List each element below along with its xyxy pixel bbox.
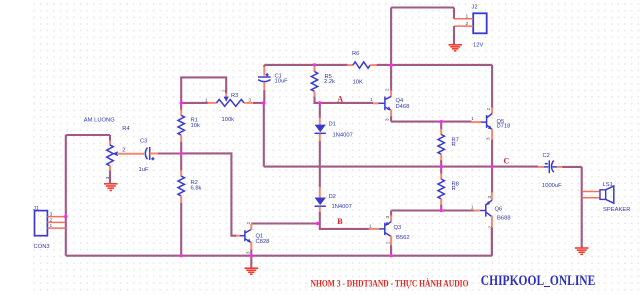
svg-text:Q4: Q4 xyxy=(396,98,405,104)
svg-text:R: R xyxy=(452,186,456,192)
svg-text:3: 3 xyxy=(385,118,390,121)
resistor R5 xyxy=(311,66,335,103)
title blue xyxy=(481,273,596,289)
wire C1 column to node C xyxy=(263,103,265,167)
node junction A / D1 xyxy=(318,101,321,104)
svg-text:1N4007: 1N4007 xyxy=(333,133,353,139)
node A label xyxy=(337,95,343,104)
svg-text:AM LUONG: AM LUONG xyxy=(84,117,115,123)
svg-text:6.8k: 6.8k xyxy=(191,186,202,192)
svg-text:1: 1 xyxy=(471,204,474,209)
wire C2 down to speaker and ground xyxy=(581,167,583,248)
title red xyxy=(311,278,469,290)
potentiometer R3 xyxy=(181,89,263,123)
svg-text:C3: C3 xyxy=(140,139,147,145)
resistor R2 xyxy=(178,153,202,255)
svg-text:3: 3 xyxy=(487,196,492,199)
wire bottom ground rail xyxy=(66,255,492,257)
node C label xyxy=(504,156,510,165)
svg-text:R6: R6 xyxy=(352,51,359,57)
connector J1 xyxy=(33,206,66,250)
wire Q3 emitter to Q6 base xyxy=(391,209,474,211)
svg-text:D2: D2 xyxy=(329,194,336,200)
resistor R6 xyxy=(347,51,377,85)
svg-text:12V: 12V xyxy=(473,43,483,49)
diode D1 xyxy=(315,103,353,141)
svg-text:2.2k: 2.2k xyxy=(324,79,335,85)
transistor Q1 xyxy=(236,222,269,256)
node junction B xyxy=(316,222,319,225)
wire J2 column to Q4 collector xyxy=(390,65,392,91)
svg-text:3: 3 xyxy=(249,97,252,102)
wire node A to Q4 base xyxy=(320,102,373,104)
svg-text:100k: 100k xyxy=(222,117,235,123)
node junction Q5 emitter / node C xyxy=(490,165,493,168)
svg-text:3: 3 xyxy=(246,251,251,254)
svg-text:Q3: Q3 xyxy=(394,225,402,231)
node B label xyxy=(337,217,343,226)
svg-text:2: 2 xyxy=(222,89,227,92)
capacitor C2 xyxy=(538,153,582,189)
transistor Q5 xyxy=(471,107,510,166)
wire top supply rail xyxy=(264,64,492,66)
svg-text:1: 1 xyxy=(50,223,53,228)
wire node B jog to Q3 base xyxy=(320,224,369,229)
resistor R8 xyxy=(438,167,459,211)
svg-text:CHIPKOOL_ONLINE: CHIPKOOL_ONLINE xyxy=(481,273,596,289)
node junction R7 bottom / node C xyxy=(440,165,443,168)
node junction R3 pin1 xyxy=(180,101,183,104)
node junction R3 pin3 / C1 xyxy=(262,101,265,104)
wire Q1 collector to node B xyxy=(251,222,319,224)
wire rail end to Q6 collector xyxy=(491,228,493,256)
svg-text:NHOM 3 - DHDT3AND - THỰC HÀNH: NHOM 3 - DHDT3AND - THỰC HÀNH AUDIO xyxy=(311,278,469,290)
svg-text:2: 2 xyxy=(466,21,469,26)
svg-text:R: R xyxy=(452,142,456,148)
capacitor C3 xyxy=(139,139,182,174)
ground under speaker xyxy=(575,248,589,254)
svg-text:D468: D468 xyxy=(396,104,410,110)
svg-text:1N4007: 1N4007 xyxy=(332,204,352,210)
node junction J1 pin3 xyxy=(64,215,67,218)
node junction R8 bottom xyxy=(440,209,443,212)
svg-text:C2: C2 xyxy=(543,153,550,159)
node junction supply rail / J2 xyxy=(389,63,392,66)
node junction R2 bottom rail xyxy=(180,254,183,257)
svg-text:J2: J2 xyxy=(472,4,478,10)
svg-text:D718: D718 xyxy=(497,123,511,129)
svg-text:D1: D1 xyxy=(329,122,336,128)
svg-text:3: 3 xyxy=(50,212,53,217)
svg-text:B688: B688 xyxy=(497,216,511,222)
wire J1 to R4 top xyxy=(66,134,110,136)
svg-text:B: B xyxy=(337,217,343,226)
speaker LS1 xyxy=(582,182,631,213)
wire C3 node to Q1 base xyxy=(181,153,236,235)
diode D2 xyxy=(315,187,352,224)
svg-text:B562: B562 xyxy=(396,235,410,241)
connector J2 xyxy=(454,4,487,48)
svg-text:A: A xyxy=(337,95,343,104)
svg-text:2: 2 xyxy=(246,222,251,225)
svg-text:10K: 10K xyxy=(353,79,363,85)
svg-text:1000uF: 1000uF xyxy=(542,183,562,189)
wire R3 feedback loop xyxy=(181,77,226,103)
svg-text:CON3: CON3 xyxy=(34,244,50,250)
svg-text:1: 1 xyxy=(370,97,373,102)
wire supply rail to Q5 collector xyxy=(491,65,493,108)
svg-text:2: 2 xyxy=(386,241,391,244)
svg-text:1: 1 xyxy=(205,97,208,102)
svg-text:C828: C828 xyxy=(256,239,270,245)
svg-text:R4: R4 xyxy=(122,126,130,132)
node junction C3/R1/R2 xyxy=(180,152,183,155)
node junction R7 top xyxy=(440,120,443,123)
transistor Q6 xyxy=(471,167,511,256)
capacitor C1 xyxy=(258,65,288,103)
svg-text:10k: 10k xyxy=(191,123,200,129)
svg-text:Q6: Q6 xyxy=(495,207,503,213)
wire J2 top feed xyxy=(391,8,454,66)
node junction Q3 collector rail xyxy=(389,254,392,257)
svg-text:1: 1 xyxy=(369,224,372,229)
svg-text:3: 3 xyxy=(486,137,491,140)
wire Q4 emitter to Q5 base xyxy=(391,121,471,123)
potentiometer R4 xyxy=(84,117,144,183)
svg-text:1: 1 xyxy=(466,14,469,19)
svg-text:2: 2 xyxy=(50,217,53,222)
svg-text:10uF: 10uF xyxy=(275,79,289,85)
svg-text:R3: R3 xyxy=(231,93,238,99)
svg-text:1uF: 1uF xyxy=(139,167,149,173)
svg-text:1: 1 xyxy=(471,116,474,121)
ground under J2 xyxy=(448,45,462,51)
svg-text:2: 2 xyxy=(122,148,125,154)
node junction Q1 emitter rail xyxy=(250,254,253,257)
node junction R5 top xyxy=(313,63,316,66)
svg-text:2: 2 xyxy=(486,108,491,111)
wire node C rail xyxy=(264,166,538,168)
wire J1 column xyxy=(65,135,67,256)
resistor R1 xyxy=(178,103,200,153)
svg-text:C: C xyxy=(504,156,510,165)
svg-text:3: 3 xyxy=(385,216,390,219)
wire D1 to D2 xyxy=(319,141,321,187)
ground under Q1 xyxy=(245,256,259,275)
transistor Q4 xyxy=(370,88,409,122)
transistor Q3 xyxy=(369,211,410,256)
resistor R7 xyxy=(438,122,459,167)
svg-text:2: 2 xyxy=(385,88,390,91)
svg-text:SPEAKER: SPEAKER xyxy=(603,207,630,213)
ground under R4 xyxy=(104,184,118,191)
